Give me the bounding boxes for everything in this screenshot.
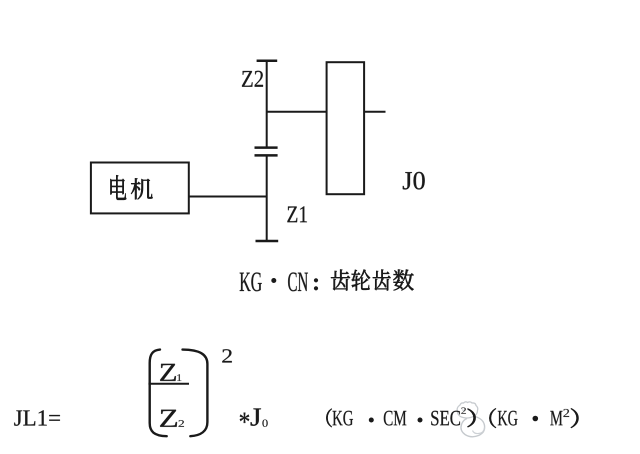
- caption 齿 (2nd): [373, 270, 391, 291]
- caption colon lower dot: [314, 286, 318, 290]
- wire gear shaft to load J0: [267, 111, 326, 113]
- caption 齿: [331, 270, 350, 291]
- units closing paren 1: [468, 409, 476, 427]
- motor label 机: [131, 178, 152, 199]
- units closing paren 2: [571, 408, 578, 427]
- fraction denominator Z: [160, 410, 177, 427]
- units KG 1: [332, 411, 352, 426]
- caption CN: [288, 272, 308, 291]
- watermark cartoon head: [457, 402, 478, 418]
- units SEC: [431, 411, 460, 426]
- label Z2: [242, 71, 263, 87]
- units KG 2: [498, 411, 518, 426]
- big right bracket: [183, 350, 208, 437]
- label Z1: [287, 206, 307, 222]
- gear mesh upper plate: [255, 146, 278, 149]
- asterisk: [240, 413, 249, 423]
- units M: [550, 411, 562, 425]
- formula JL1=: [14, 410, 60, 425]
- units opening paren 2: [489, 408, 496, 427]
- label J0: [403, 172, 425, 190]
- watermark body swirl: [461, 417, 485, 437]
- watermark tail curl: [473, 428, 485, 434]
- motor block: [91, 163, 189, 214]
- caption middle dot: [271, 278, 276, 283]
- exponent 2: [222, 349, 231, 362]
- watermark face marks: [462, 409, 471, 412]
- shaft top end tick: [257, 59, 278, 62]
- big left bracket: [150, 350, 167, 437]
- shaft bottom end tick: [256, 240, 279, 243]
- gear mesh lower plate: [255, 154, 278, 157]
- subscript 0 of J0: [262, 419, 267, 426]
- J of *J0: [251, 408, 261, 425]
- fraction numerator Z: [160, 364, 176, 381]
- caption KG: [240, 272, 262, 291]
- load inertia block J0: [327, 62, 365, 194]
- units M exponent 2: [563, 409, 569, 417]
- load output shaft stub: [364, 111, 385, 113]
- fraction bar: [148, 383, 189, 385]
- numerator subscript 1: [177, 374, 181, 381]
- denominator subscript 2: [179, 420, 184, 427]
- caption 轮: [352, 270, 371, 291]
- gear shaft lower segment (gear Z1): [266, 155, 268, 241]
- units dot 1: [369, 418, 374, 423]
- wire motor to gear shaft: [189, 196, 267, 198]
- motor label 电: [110, 175, 126, 200]
- units dot 3: [533, 416, 539, 422]
- units opening paren 1: [326, 409, 331, 427]
- caption 数: [393, 269, 413, 290]
- units CM: [384, 411, 406, 426]
- units dot 2: [418, 418, 423, 423]
- gear shaft upper segment (gear Z2): [266, 61, 268, 148]
- caption colon upper dot: [314, 278, 318, 282]
- units SEC exponent 2: [461, 408, 466, 414]
